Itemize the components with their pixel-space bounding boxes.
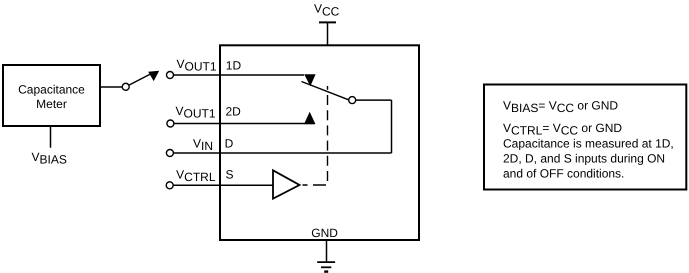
svg-text:D: D [225, 137, 234, 151]
wire GND to ground [326, 240, 328, 262]
switch SW1 arrow head [148, 71, 159, 81]
terminal VOUT1 1D circle [167, 72, 174, 79]
wire D internal [220, 152, 392, 154]
wire S internal [220, 184, 273, 186]
ground symbol [317, 262, 335, 272]
contact arrow 2D (up) [304, 112, 315, 124]
wire switch to right [356, 99, 392, 101]
svg-text:Capacitance: Capacitance [18, 83, 85, 97]
svg-text:1D: 1D [226, 59, 242, 73]
DUT box U1 [220, 45, 419, 240]
wire 2D internal [220, 123, 315, 125]
wire terminal 2D to box [174, 123, 220, 125]
svg-text:2D: 2D [226, 104, 242, 118]
terminal VOUT1 2D circle [167, 120, 174, 127]
svg-text:GND: GND [311, 226, 338, 240]
node VBIAS stem [50, 127, 52, 148]
switch SW2 arm [302, 82, 349, 100]
wire meter to switch [101, 86, 122, 88]
contact arrow 1D (down) [304, 74, 315, 86]
note box [484, 85, 686, 190]
capacitance meter box [3, 65, 100, 126]
svg-text:S: S [226, 168, 234, 182]
dashed control line horizontal [303, 184, 327, 186]
switch SW2 pivot circle [349, 97, 356, 104]
switch SW1 arm [129, 74, 150, 85]
dashed control line vertical [327, 86, 329, 181]
svg-text:and of OFF conditions.: and of OFF conditions. [503, 167, 624, 181]
wire terminal 1D to box [174, 74, 220, 76]
switch SW1 pivot contact [122, 83, 129, 90]
wire VCC to box [327, 22, 329, 45]
terminal VCTRL circle [166, 182, 173, 189]
wire terminal D to box [174, 152, 221, 154]
svg-text:2D, D, and S inputs during ON: 2D, D, and S inputs during ON [503, 151, 665, 165]
buffer U2 triangle [273, 170, 300, 198]
wire 1D internal [220, 74, 304, 76]
svg-text:Capacitance is measured at 1D,: Capacitance is measured at 1D, [503, 136, 674, 150]
terminal VIN circle [166, 150, 173, 157]
power rail VCC bar [319, 21, 336, 23]
wire terminal S to box [173, 184, 220, 186]
wire down to D line [391, 100, 393, 153]
svg-text:Meter: Meter [36, 97, 67, 111]
